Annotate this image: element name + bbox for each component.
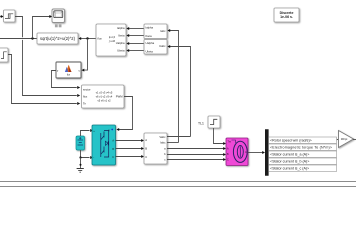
svg-text:Ubeta: Ubeta [146,49,154,53]
gain block 30/pi [339,131,354,148]
torque relay (cropped at left edge) [0,48,8,62]
svg-text:<Stator current is_c (A)>: <Stator current is_c (A)> [270,167,309,171]
wire: Iabc output rightward then up [167,142,179,144]
svg-text:-: - [93,156,94,160]
wire: motor measurement bus to bus selector [248,151,265,154]
flux estimator subsystem [96,24,126,56]
node: branch of flux magnitude wire up to scope [31,15,52,40]
svg-text:v1 v2 v3 v4 v5: v1 v2 v3 v4 v5 [96,91,113,95]
wire: TL1 to motor Tm input [214,128,227,145]
wire: sector output down to sector input of switching table [52,71,81,90]
switching table block [82,85,125,108]
node: branch of flux vector down to MATLAB fcn [82,37,89,71]
svg-text:flux: flux [98,37,103,41]
wire: Ubeta into estimator [126,49,144,52]
svg-text:PWM: PWM [116,95,123,99]
svg-text:m: m [245,151,247,154]
signal label: rotor speed [269,137,337,143]
svg-text:TL1: TL1 [198,121,204,125]
svg-text:flux: flux [83,94,88,98]
svg-text:Te: Te [83,101,86,105]
svg-text:v6 v1 v2 v3 v4: v6 v1 v2 v3 v4 [96,95,113,99]
wire: inverter phase A to V-I measurement [116,139,145,142]
svg-text:ψ α β: ψ α β [109,35,116,39]
svg-text:Uabc: Uabc [159,44,166,48]
asynchronous machine (induction motor) [226,138,248,166]
svg-text:Ubeta: Ubeta [117,49,125,53]
svg-text:Ialpha: Ialpha [117,26,125,30]
svg-text:sqrt(u(1)^2+u(2)^2): sqrt(u(1)^2+u(2)^2) [40,36,76,41]
wire: PWM output to inverter gate [116,97,132,132]
svg-text:∫ u-Ri: ∫ u-Ri [108,39,116,43]
wire: inverter phase B to V-I measurement [116,147,145,150]
wire: gain output to right edge [353,139,356,141]
svg-text:B: B [145,147,147,151]
wire: Ualpha into estimator [126,42,144,45]
svg-text:v5 v6 v1 v2: v5 v6 v1 v2 [97,99,111,103]
svg-text:1e-06 s.: 1e-06 s. [280,15,293,19]
svg-text:Ualpha: Ualpha [146,41,155,45]
signal label: stator current is_b [269,158,337,164]
wire: flux relay output down to flux input of switching table [15,17,80,98]
wire: torque relay output down to Te input of switching table [8,55,80,106]
svg-text:C: C [112,156,114,159]
signal label: electromagnetic torque [269,144,337,150]
svg-text:C: C [227,159,229,162]
svg-text:Iabc: Iabc [160,140,166,144]
relay R-flux (flux hysteresis comparator) [4,10,16,22]
wire: phase c to motor [167,158,226,161]
MATLAB fcn sector block [56,62,81,78]
wire: inverter phase C to V-I measurement [116,155,145,158]
signal label: stator current is_c [269,165,337,171]
svg-text:<Stator current is_a (A)>: <Stator current is_a (A)> [270,153,309,157]
wire: flux magnitude from Fcn output to left edge [0,38,37,40]
powergui block [274,8,299,22]
DC voltage source [76,136,85,150]
svg-text:<Stator current is_b (A)>: <Stator current is_b (A)> [270,160,309,164]
svg-text:sector: sector [83,87,91,91]
ground symbol [77,158,84,173]
step block TL1 [208,116,220,128]
wire: long feedback line 1 (bottom) [0,181,356,183]
svg-text:A: A [145,138,147,142]
abc to alpha-beta converter (currents) [144,24,167,39]
svg-text:Ibeta: Ibeta [146,34,153,38]
wire: Vabc from V-I measurement up into voltage converter [167,45,190,137]
signal label: stator current is_a [269,151,337,157]
abc to alpha-beta converter (voltages) [144,40,167,55]
wire: input to flux relay from left edge [0,15,4,18]
svg-text:Ibeta: Ibeta [118,34,125,38]
wire: phase a to motor [167,147,226,150]
wire: Ialpha into estimator [126,27,144,30]
svg-text:<Electromagnetic torque Te (N*: <Electromagnetic torque Te (N*m)> [270,146,332,150]
svg-text:Ualpha: Ualpha [116,41,125,45]
three-phase V-I measurement block [144,133,167,164]
wire: DC source plus to inverter [81,129,94,136]
wire: Vabc output rightward then up [167,136,191,138]
svg-text:Vabc: Vabc [159,135,166,139]
wire: phase b to motor [167,153,226,156]
svg-text:<Rotor speed wm (rad/s)>: <Rotor speed wm (rad/s)> [270,139,312,143]
wire: DC source minus to inverter and ground [79,150,93,159]
wire: rotor speed to gain [269,138,339,141]
wire: Iabc from V-I measurement up into current converter [167,29,178,143]
bus selector [265,130,268,176]
svg-text:30/pi: 30/pi [341,137,348,141]
svg-text:Ialpha: Ialpha [146,25,154,29]
wire: Ibeta into estimator [126,34,144,37]
svg-text:Iabc: Iabc [160,29,166,33]
wire: long feedback line 2 (bottom) [0,186,356,188]
scope label [55,24,62,27]
universal bridge inverter [92,125,116,165]
Fcn block sqrt(u(1)^2+u(2)^2) [37,33,78,44]
wire: flux vector from estimator into Fcn input (right-to-left) [78,37,96,40]
scope block [52,9,65,23]
svg-text:C: C [145,155,147,159]
svg-text:Tm: Tm [228,141,231,144]
